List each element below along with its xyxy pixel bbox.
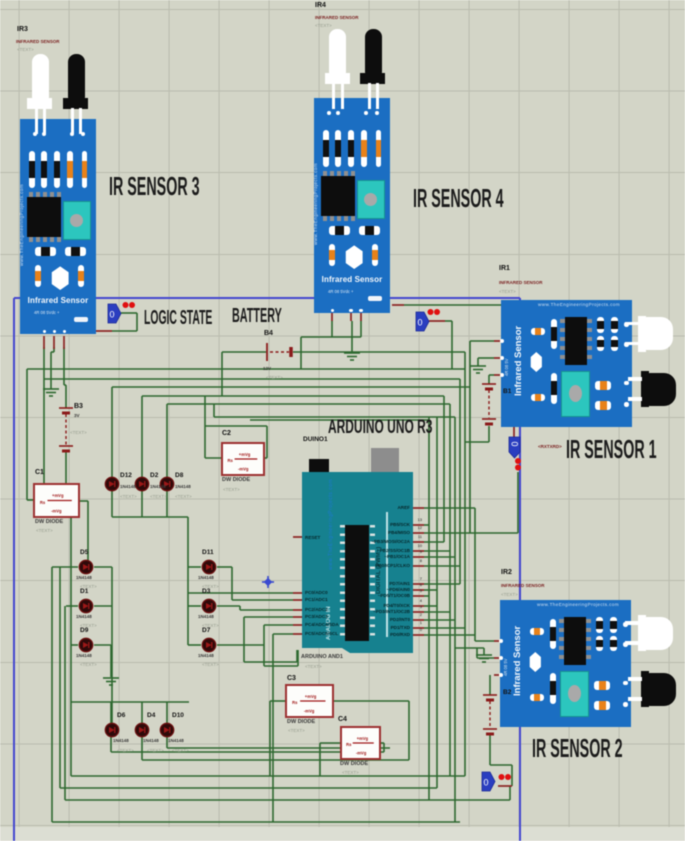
svg-text:Rs: Rs <box>346 742 352 747</box>
svg-text:-mVg: -mVg <box>238 467 249 472</box>
svg-text:0: 0 <box>510 441 520 446</box>
svg-text:-mVg: -mVg <box>304 709 315 714</box>
svg-text:Rs: Rs <box>40 500 46 505</box>
svg-text:Rs: Rs <box>227 458 233 463</box>
svg-text:0: 0 <box>483 778 488 788</box>
svg-text:-mVg: -mVg <box>356 751 367 756</box>
svg-text:0: 0 <box>109 310 114 320</box>
svg-text:+mVg: +mVg <box>52 493 64 498</box>
svg-text:+mVg: +mVg <box>357 736 369 741</box>
svg-text:Rs: Rs <box>292 700 298 705</box>
svg-text:+mVg: +mVg <box>239 452 251 457</box>
svg-text:0: 0 <box>417 318 422 328</box>
svg-text:-mVg: -mVg <box>51 508 62 513</box>
svg-text:+mVg: +mVg <box>305 694 317 699</box>
